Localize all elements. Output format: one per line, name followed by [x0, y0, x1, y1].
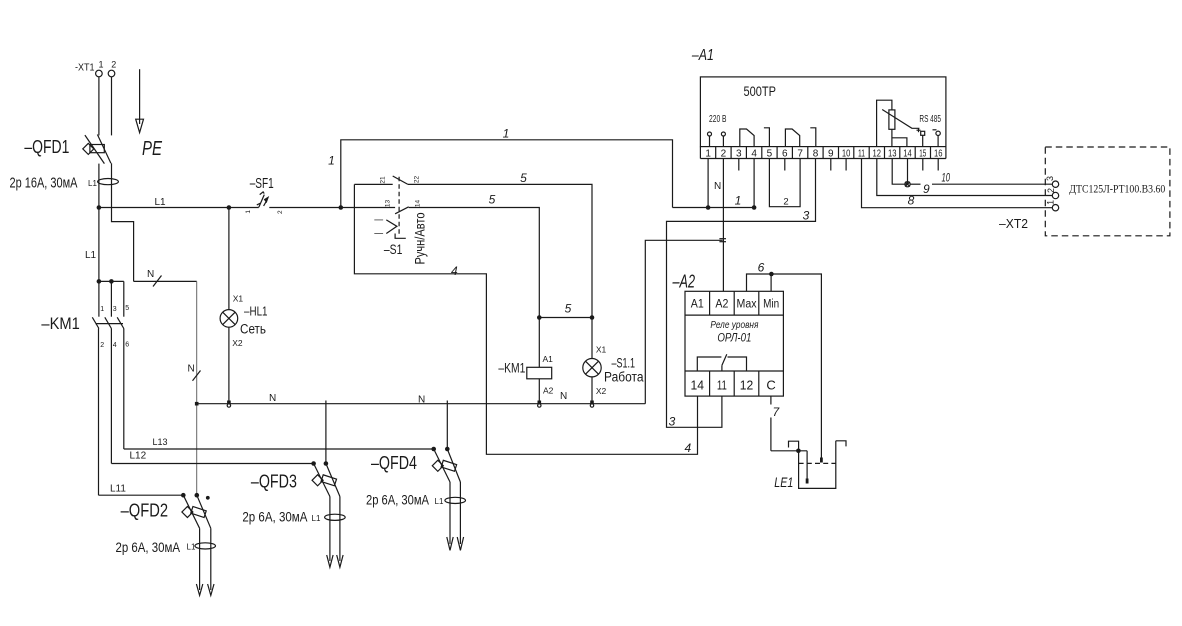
- svg-text:Min: Min: [763, 299, 779, 311]
- breaker QFD2 test diamond: [182, 506, 193, 517]
- contactor KM1 pole 1: [92, 281, 99, 495]
- svg-text:1: 1: [328, 154, 335, 168]
- svg-text:6: 6: [758, 261, 765, 275]
- svg-text:5: 5: [565, 302, 572, 316]
- svg-text:L12: L12: [130, 451, 147, 462]
- wire 3 from pin 8 to A2 pin 11: [667, 159, 816, 428]
- svg-text:9: 9: [828, 148, 834, 159]
- svg-text:12: 12: [740, 378, 754, 393]
- wire N rail horizontal: [197, 403, 646, 405]
- wire XT1.1 to QFD1: [98, 77, 100, 136]
- fixed contact hook at pin 8: [810, 128, 816, 147]
- svg-text:Х2: Х2: [596, 386, 607, 396]
- svg-text:11: 11: [858, 148, 865, 159]
- wire 1 horizontal at A1: [673, 207, 755, 209]
- svg-text:2: 2: [111, 60, 116, 70]
- svg-text:N: N: [188, 364, 195, 375]
- tank water level dashed: [799, 462, 836, 464]
- switch SF1 release arrow: [264, 196, 270, 203]
- svg-text:13: 13: [385, 200, 392, 208]
- node wire1 junction on L1: [339, 205, 344, 210]
- svg-text:16: 16: [934, 148, 943, 159]
- svg-text:1: 1: [100, 306, 104, 313]
- svg-text:5: 5: [489, 193, 496, 207]
- wire 2 loop pins 5-7: [769, 159, 800, 207]
- node jumper dot left: [537, 315, 542, 320]
- lamp HL1 wire from L1: [227, 205, 232, 210]
- svg-text:2: 2: [1046, 188, 1056, 193]
- svg-text:3: 3: [1045, 176, 1055, 181]
- RS485 minus terminal: [933, 129, 937, 131]
- relay A2 internal contact: [697, 354, 746, 371]
- svg-text:N: N: [714, 181, 721, 192]
- RTD sensor rect inside A1: [889, 110, 895, 129]
- fixed contact hook at pin 5: [764, 128, 770, 147]
- wire N tap to QFD4: [446, 401, 448, 450]
- relay A2 top pin labels: [691, 299, 779, 311]
- svg-text:1: 1: [98, 60, 103, 70]
- svg-text:5: 5: [125, 305, 129, 312]
- svg-text:2: 2: [721, 148, 727, 159]
- RTD diagonal: [882, 110, 919, 129]
- lamp S1.1 circle: [583, 359, 601, 377]
- RTD bottom connection to pin 13: [891, 129, 893, 146]
- svg-text:–KM1: –KM1: [41, 314, 79, 333]
- svg-text:L1: L1: [312, 514, 321, 523]
- svg-text:4: 4: [751, 148, 757, 159]
- stub under pin 16: [937, 159, 939, 171]
- svg-text:Работа: Работа: [604, 370, 644, 385]
- svg-text:1: 1: [705, 148, 711, 159]
- breaker QFD2 blades: [183, 495, 199, 528]
- svg-text:A1: A1: [543, 354, 554, 364]
- wire from pin 11 to XT2: [862, 159, 1053, 208]
- svg-text:ДТС125Л-РТ100.В3.60: ДТС125Л-РТ100.В3.60: [1069, 184, 1165, 196]
- wire L1 from SF1 to S1: [269, 207, 395, 209]
- svg-text:6: 6: [125, 342, 129, 349]
- svg-text:2: 2: [100, 342, 104, 349]
- breaker QFD4 toroid: [445, 497, 466, 503]
- sensor LE1 short electrode tip: [820, 458, 823, 463]
- contactor KM1 pole 3: [117, 281, 124, 449]
- wire 8 from pin 12 to XT2: [877, 159, 1053, 196]
- controller A1 input circle pin2: [721, 132, 725, 136]
- svg-text:14: 14: [415, 200, 422, 208]
- svg-text:3: 3: [736, 148, 742, 159]
- switch S1 selector step: [395, 234, 406, 239]
- switch S1 contact 13-14 blade: [395, 207, 409, 214]
- svg-text:L11: L11: [110, 484, 126, 495]
- tank LE1 walls: [799, 441, 836, 489]
- breaker QFD4 blades: [434, 449, 450, 482]
- breaker QFD3 output arrows: [327, 555, 343, 567]
- switch SF1 blade bottom tick: [257, 203, 261, 205]
- node QFD4 input dots: [431, 447, 436, 452]
- stub under pin 9: [830, 159, 832, 171]
- wire QFD1 pole2 output going to N: [112, 163, 134, 281]
- svg-text:–S1.1: –S1.1: [612, 355, 636, 370]
- lamp S1.1 wire from jumper: [591, 318, 593, 359]
- breaker QFD3 test diamond: [312, 475, 323, 486]
- svg-text:1: 1: [735, 194, 742, 208]
- wire HL1 to N rail: [228, 327, 230, 404]
- relay contact 6-7 inside A1: [785, 129, 799, 147]
- terminal XT1 pin 1: [96, 70, 103, 77]
- RS485 plus terminal: [917, 128, 921, 132]
- svg-text:6: 6: [782, 148, 788, 159]
- svg-text:-XT1: -XT1: [75, 63, 95, 74]
- stub under pin 3: [738, 159, 740, 171]
- relay A2 bottom pin labels: [691, 378, 776, 393]
- svg-text:–QFD1: –QFD1: [24, 137, 69, 157]
- wire L12 from KM1 pole4: [111, 463, 313, 465]
- contactor KM1 pole 2: [105, 281, 112, 463]
- node electrode junction dot: [796, 449, 801, 454]
- svg-text:5: 5: [520, 171, 527, 185]
- svg-text:4: 4: [685, 441, 692, 455]
- svg-text:8: 8: [908, 194, 915, 208]
- breaker QFD3 toroid: [325, 514, 346, 520]
- svg-text:Х1: Х1: [596, 345, 607, 355]
- RTD jog connection to pin 14: [892, 138, 907, 147]
- wire 5 from contact 22 to lamp branch: [408, 184, 592, 317]
- svg-text:Х2: Х2: [232, 338, 243, 348]
- relay A2 bottom row line: [685, 370, 783, 372]
- wire 5 jumper between branches: [539, 317, 592, 319]
- node N rail square S1.1 with pin circle: [590, 401, 594, 404]
- svg-text:4: 4: [113, 342, 117, 349]
- svg-text:A1: A1: [691, 299, 704, 311]
- svg-text:–QFD4: –QFD4: [371, 453, 417, 473]
- node N rail square KM1 coil with pin circle: [538, 401, 542, 404]
- node L1 junction at QFD1: [97, 205, 102, 210]
- terminal strip A1 row: [700, 147, 946, 159]
- wire pin4 down: [753, 159, 755, 208]
- svg-text:–SF1: –SF1: [250, 175, 274, 192]
- switch SF1 blade: [259, 195, 265, 208]
- svg-text:N: N: [418, 395, 425, 406]
- connector XT2 pin 3 circle: [1052, 181, 1058, 187]
- svg-text:1: 1: [503, 127, 510, 141]
- wire N from QFD1 horizontal with slash: [134, 280, 197, 282]
- breaker QFD4 output arrows: [447, 537, 464, 550]
- switch S1 dashed link: [398, 177, 400, 235]
- node jumper dot right: [590, 315, 595, 320]
- svg-text:7: 7: [797, 148, 803, 159]
- svg-text:2р 16А, 30мА: 2р 16А, 30мА: [10, 176, 78, 192]
- node KM1 jumper dot 2: [109, 279, 114, 284]
- relay A2 bottom cell dividers: [710, 371, 759, 396]
- wire L13 from KM1 pole6: [124, 448, 434, 450]
- breaker QFD3 blades: [314, 464, 330, 497]
- lamp HL1 circle: [220, 310, 238, 328]
- svg-text:1: 1: [1046, 200, 1056, 205]
- tank right bracket: [836, 441, 846, 447]
- svg-text:C: C: [766, 378, 775, 393]
- wire L1 horizontal to SF1: [99, 207, 259, 209]
- coil KM1 rectangle: [527, 367, 552, 379]
- svg-text:8: 8: [813, 148, 819, 159]
- controller A1 input circle pin1: [708, 132, 712, 136]
- svg-text:2: 2: [783, 197, 788, 208]
- wire 1 up-over to A1: [341, 140, 673, 208]
- svg-text:N: N: [560, 391, 567, 402]
- wire N tap to QFD3: [325, 401, 327, 464]
- breaker QFD2 output arrows: [196, 584, 214, 595]
- svg-text:22: 22: [414, 176, 421, 184]
- svg-text:N: N: [269, 393, 276, 404]
- wire 6 Max-Min to electrode: [747, 274, 822, 458]
- svg-text:220 В: 220 В: [709, 113, 727, 125]
- svg-text:L1: L1: [187, 543, 196, 552]
- node N rail square QFD2: [195, 402, 199, 406]
- svg-text:–QFD3: –QFD3: [251, 472, 297, 492]
- relay A2 top row line: [685, 314, 783, 316]
- node N rail square HL1 with pin circle: [227, 401, 231, 404]
- svg-text:Max: Max: [737, 299, 757, 311]
- breaker QFD1 toroid ellipse: [98, 179, 119, 185]
- wire coil KM1 to N rail: [538, 379, 540, 404]
- node crossed circle junction: [905, 182, 910, 187]
- svg-text:500ТР: 500ТР: [744, 84, 777, 99]
- contactor KM1 linkage bar: [96, 323, 124, 325]
- svg-text:3: 3: [113, 306, 117, 313]
- breaker QFD3 crossbar: [321, 475, 336, 486]
- breaker QFD4 crossbar: [441, 460, 456, 471]
- breaker QFD2 toroid: [195, 543, 216, 549]
- coil KM1 wire from jumper: [538, 318, 540, 368]
- breaker QFD2 output wires: [199, 528, 201, 590]
- controller A1 box: [700, 77, 946, 147]
- switch S1 selector bars: [374, 219, 383, 221]
- svg-text:ОРЛ-01: ОРЛ-01: [717, 331, 751, 345]
- wire XT1.2 to QFD1: [111, 77, 113, 136]
- relay A2 box: [685, 291, 783, 396]
- svg-text:Х1: Х1: [233, 294, 244, 304]
- svg-text:10: 10: [842, 148, 851, 159]
- stub under pin 10: [845, 159, 847, 171]
- svg-text:3: 3: [803, 209, 810, 223]
- sensor LE1 long electrode: [806, 451, 808, 479]
- svg-text:Реле уровня: Реле уровня: [710, 319, 758, 331]
- svg-text:LE1: LE1: [774, 474, 793, 490]
- wire N rail turn up to A2 link: [645, 240, 722, 403]
- svg-text:–KM1: –KM1: [498, 360, 525, 376]
- svg-text:15: 15: [919, 148, 926, 159]
- wire lamp S1.1 to N rail: [591, 377, 593, 404]
- node QFD2 input dots: [181, 493, 186, 498]
- svg-text:L1: L1: [155, 197, 167, 208]
- svg-text:9: 9: [923, 182, 930, 196]
- breaker QFD3 output wires: [329, 497, 331, 562]
- switch S1 selector chevron: [386, 220, 397, 234]
- node KM1 jumper dot 1: [97, 279, 102, 284]
- svg-text:–QFD2: –QFD2: [121, 500, 169, 520]
- switch S1 wire from contact 21 down (wire 4 start): [354, 184, 697, 454]
- svg-text:L1: L1: [88, 179, 97, 188]
- wire 5 from contact 14 to coil branch: [409, 208, 540, 318]
- wire N vertical to rail: [196, 281, 198, 495]
- tank left bracket: [789, 441, 799, 451]
- breaker QFD1 crossbar: [90, 145, 104, 153]
- svg-text:–A1: –A1: [691, 47, 714, 64]
- wire 7 from pin C: [770, 396, 772, 404]
- stub under pin 6: [784, 159, 786, 171]
- connector XT2 pin 1 circle: [1052, 205, 1058, 211]
- ground PE arrow: [136, 69, 144, 132]
- svg-text:12: 12: [873, 148, 882, 159]
- wire L11 from KM1 pole2: [99, 494, 184, 496]
- wire L1 down to KM1: [98, 208, 100, 282]
- terminal XT1 pin 2: [108, 70, 115, 77]
- contactor KM1 input jumper: [99, 280, 124, 282]
- svg-text:–HL1: –HL1: [244, 304, 268, 318]
- connector XT2 pin 2 circle: [1052, 192, 1058, 198]
- svg-text:A2: A2: [543, 386, 554, 396]
- svg-text:14: 14: [691, 378, 705, 393]
- svg-text:Сеть: Сеть: [240, 321, 266, 336]
- svg-text:13: 13: [888, 148, 897, 159]
- svg-text:N: N: [147, 269, 154, 280]
- relay A2 top cell dividers: [710, 291, 759, 315]
- svg-text:L13: L13: [153, 437, 168, 447]
- terminal strip A1 numbers: [705, 148, 942, 159]
- svg-text:PE: PE: [142, 138, 162, 160]
- wire 9 from pins 13-14: [892, 159, 907, 185]
- stub under pin 15: [922, 159, 924, 171]
- wire N pin2 down to A2: [722, 159, 724, 292]
- breaker QFD1 pole blades: [85, 135, 105, 164]
- RTD top connection to pin 12: [877, 100, 892, 146]
- relay contact 3-4 inside A1: [740, 129, 754, 147]
- svg-text:2: 2: [277, 210, 284, 214]
- svg-text:3: 3: [669, 414, 676, 428]
- svg-text:L1: L1: [85, 250, 97, 261]
- switch S1 contact 21-22 fixed line: [354, 183, 392, 185]
- svg-text:A2: A2: [715, 299, 728, 311]
- svg-text:–S1: –S1: [384, 241, 403, 257]
- svg-text:4: 4: [451, 264, 458, 278]
- switch SF1 blade top hook: [260, 192, 265, 195]
- svg-text:–ХТ2: –ХТ2: [999, 216, 1028, 231]
- node A1 terminal1 dot: [706, 205, 711, 210]
- switch S1 contact 21-22 blade: [393, 176, 408, 184]
- svg-text:2р 6А, 30мА: 2р 6А, 30мА: [242, 509, 308, 525]
- svg-text:–A2: –A2: [672, 271, 695, 291]
- svg-text:21: 21: [380, 176, 387, 184]
- svg-text:1: 1: [245, 210, 252, 214]
- svg-text:Ручн/Авто: Ручн/Авто: [412, 212, 428, 264]
- breaker QFD4 test diamond: [432, 460, 443, 471]
- svg-text:11: 11: [717, 378, 727, 393]
- svg-text:2р 6А, 30мА: 2р 6А, 30мА: [366, 492, 430, 508]
- wire QFD1 pole1 output: [98, 164, 100, 208]
- breaker QFD4 output wires: [449, 482, 451, 544]
- connector XT2 dashed box: [1045, 147, 1170, 236]
- svg-text:RS 485: RS 485: [919, 113, 941, 125]
- svg-text:2р 6А, 30мА: 2р 6А, 30мА: [116, 539, 181, 555]
- wire 9 to XT2: [910, 183, 920, 185]
- node QFD3 input dots: [311, 461, 316, 466]
- breaker QFD2 crossbar: [191, 507, 206, 518]
- svg-text:10: 10: [941, 171, 950, 185]
- wire pin1 down: [707, 159, 709, 208]
- svg-text:14: 14: [903, 148, 912, 159]
- node A1 terminal4 dot: [752, 205, 757, 210]
- node wire 6 dot: [769, 272, 774, 277]
- svg-text:L1: L1: [435, 497, 444, 506]
- svg-text:5: 5: [767, 148, 773, 159]
- breaker QFD1 test diamond: [83, 143, 94, 154]
- node N link jog: [719, 239, 726, 242]
